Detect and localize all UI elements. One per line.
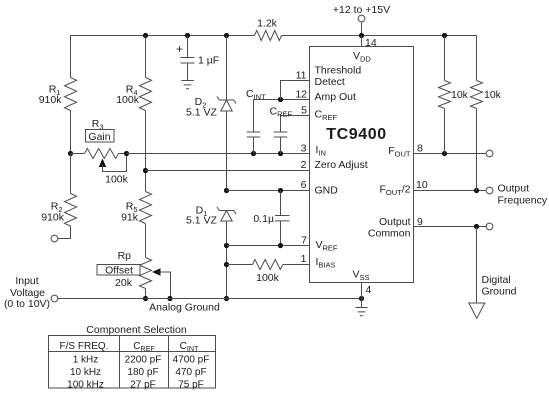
svg-text:10: 10	[416, 179, 428, 191]
svg-text:Common: Common	[368, 228, 411, 240]
op-amp U1 TC9400 box	[310, 47, 414, 283]
wire R2 to terminal	[58, 226, 71, 239]
svg-text:20k: 20k	[115, 277, 133, 289]
resistor 10k #1	[439, 81, 451, 109]
terminal (R2 open circle)	[51, 235, 58, 242]
svg-text:Digital: Digital	[482, 274, 511, 286]
capacitor 1uF	[181, 58, 195, 64]
svg-text:0.1µ: 0.1µ	[253, 213, 274, 225]
node R4/pin2 junction	[143, 168, 148, 173]
wire pin6 GND row	[227, 190, 310, 192]
svg-text:4: 4	[366, 284, 372, 296]
wire pin10 row	[414, 190, 487, 192]
node VSS/analog ground	[359, 296, 364, 301]
terminal input voltage	[51, 295, 58, 302]
svg-text:(0 to 10V): (0 to 10V)	[4, 298, 50, 310]
svg-text:3: 3	[301, 143, 307, 155]
node 10k2/pin10	[474, 188, 479, 193]
svg-text:10k: 10k	[451, 89, 469, 101]
wire rail to R4	[145, 36, 147, 78]
wire Rp wiper to analog ground rail	[159, 272, 171, 299]
R3 wiper arrow	[99, 159, 106, 168]
wire pin11 link	[281, 81, 310, 100]
svg-text:Zero Adjust: Zero Adjust	[315, 159, 368, 171]
wire pin5 row with CREF branch	[281, 116, 310, 133]
wire CINT to pin3 row	[253, 137, 255, 154]
wire pin1 right lead	[283, 264, 310, 266]
node R-column/rail junction	[143, 296, 148, 301]
resistor R2 910k	[65, 194, 77, 227]
wire pin12 row with CINT branch	[254, 100, 310, 133]
svg-text:Output: Output	[379, 216, 411, 228]
resistor 100k (IBIAS)	[253, 260, 283, 270]
wire rail to 10k #1	[444, 36, 446, 81]
wire Rp to analog ground rail	[145, 289, 147, 299]
svg-text:4700 pF: 4700 pF	[173, 354, 210, 365]
wire rail to D2	[226, 36, 228, 101]
svg-text:Output: Output	[498, 183, 530, 195]
svg-text:100k: 100k	[256, 272, 280, 284]
wire 1uF to ground	[187, 63, 189, 81]
node CREF/pin3	[278, 151, 283, 156]
resistor 10k #2	[471, 81, 483, 109]
svg-text:Ground: Ground	[482, 286, 517, 298]
svg-text:1 kHz: 1 kHz	[73, 354, 99, 365]
svg-text:Analog Ground: Analog Ground	[149, 302, 220, 314]
wire pin9 row	[414, 226, 487, 228]
svg-text:Amp Out: Amp Out	[315, 91, 357, 103]
wire pin6 to 0.1uF	[280, 191, 282, 216]
capacitor CREF	[274, 132, 288, 137]
wire 0.1uF to pin7 row	[280, 221, 282, 246]
svg-text:1 µF: 1 µF	[198, 55, 219, 67]
svg-text:6: 6	[301, 179, 307, 191]
ground (below 1uF)	[181, 81, 194, 89]
svg-text:12: 12	[295, 89, 307, 101]
resistor 1.2k	[255, 31, 282, 41]
wire top supply rail right segment	[282, 35, 477, 37]
label box Offset	[97, 265, 140, 276]
wire pin7 VREF row	[227, 245, 310, 247]
Rp wiper arrow	[152, 268, 161, 275]
svg-text:Threshold: Threshold	[315, 65, 362, 77]
resistor R5 91k	[140, 192, 152, 224]
node R1/R3 junction	[68, 151, 73, 156]
node R3 right junction	[124, 151, 129, 156]
svg-text:14: 14	[365, 37, 377, 49]
svg-text:Gain: Gain	[88, 131, 110, 143]
wire pin2 Zero Adjust row	[146, 170, 310, 172]
terminal output frequency	[486, 187, 493, 194]
wire pin1 left lead	[227, 264, 253, 266]
svg-text:+12 to +15V: +12 to +15V	[333, 4, 390, 16]
wire analog ground rail	[58, 298, 362, 300]
svg-text:5.1 VZ: 5.1 VZ	[186, 106, 218, 118]
node D2/pin6	[224, 188, 229, 193]
svg-text:7: 7	[301, 235, 307, 247]
zener diode D2 5.1VZ	[217, 97, 236, 112]
svg-text:1.2k: 1.2k	[257, 18, 278, 30]
node pin9/digital ground	[474, 224, 479, 229]
wire CREF to pin3 row	[280, 137, 282, 154]
svg-text:Detect: Detect	[315, 76, 345, 88]
svg-text:Rp: Rp	[118, 250, 132, 262]
svg-text:5.1 VZ: 5.1 VZ	[186, 214, 218, 226]
wire rail to capacitor 1uF	[187, 36, 189, 58]
label box Gain	[86, 130, 115, 143]
capacitor 0.1uF	[275, 216, 290, 221]
wire top supply rail left segment	[71, 35, 255, 37]
svg-text:F/S FREQ.: F/S FREQ.	[60, 341, 109, 352]
ground (digital, triangle)	[469, 303, 485, 318]
svg-text:Offset: Offset	[105, 265, 133, 277]
wire rail to R1	[70, 36, 72, 78]
capacitor CINT	[247, 132, 261, 137]
supply terminal +12 to +15V	[358, 15, 365, 22]
wire R5 to Rp	[145, 224, 147, 258]
svg-text:2200 pF: 2200 pF	[125, 354, 162, 365]
svg-text:100k: 100k	[116, 94, 140, 106]
svg-text:Frequency: Frequency	[498, 195, 548, 207]
svg-text:TC9400: TC9400	[326, 126, 387, 143]
potentiometer R3 100k	[85, 149, 119, 159]
wire R3 wiper to right terminal	[103, 154, 127, 172]
svg-text:910k: 910k	[39, 94, 63, 106]
wire pin3 net IIN row	[127, 153, 310, 155]
wire D2 to pin6 row	[226, 111, 228, 191]
svg-text:8: 8	[417, 143, 423, 155]
terminal output common	[486, 223, 493, 230]
svg-text:910k: 910k	[41, 212, 65, 224]
svg-text:75 pF: 75 pF	[178, 380, 204, 391]
wire rail corner to 10k #2	[476, 36, 478, 81]
svg-text:2: 2	[301, 159, 307, 171]
svg-text:GND: GND	[315, 185, 339, 197]
svg-text:10k: 10k	[484, 89, 502, 101]
node: rail junction dots	[143, 33, 148, 38]
wire 10k #1 to pin8 row	[444, 109, 446, 154]
wire R3 right lead	[119, 153, 127, 155]
wire pin9 to digital ground	[476, 227, 478, 304]
svg-text:100 kHz: 100 kHz	[67, 380, 104, 391]
node 10k/pin8	[442, 151, 447, 156]
node D1/pin1	[224, 262, 229, 267]
wire 10k #2 to pin10 row (crosses pin8 row)	[476, 109, 478, 191]
svg-text:91k: 91k	[121, 212, 139, 224]
node D1/pin7	[224, 243, 229, 248]
svg-text:180 pF: 180 pF	[127, 367, 158, 378]
node 0.1uF/pin6	[278, 188, 283, 193]
node 0.1uF/pin7	[278, 243, 283, 248]
svg-text:+: +	[176, 42, 183, 56]
wire node to R2	[70, 154, 72, 194]
svg-text:10 kHz: 10 kHz	[70, 367, 101, 378]
svg-text:27 pF: 27 pF	[130, 380, 156, 391]
ground (VSS)	[356, 299, 368, 316]
wire D1 to analog ground rail	[226, 221, 228, 299]
node D-column/analog ground	[224, 296, 229, 301]
node CINT/pin3	[251, 151, 256, 156]
table component selection	[49, 336, 216, 389]
svg-text:1: 1	[301, 253, 307, 265]
svg-text:11: 11	[296, 70, 307, 82]
svg-text:100k: 100k	[105, 174, 129, 186]
wire R4 to R5 (crosses pin3 row)	[145, 111, 147, 192]
resistor R4 100k	[140, 78, 152, 111]
resistor R1 910k	[65, 78, 77, 111]
terminal FOUT	[486, 150, 493, 157]
svg-text:Input: Input	[15, 275, 38, 287]
node wiper/rail junction	[167, 296, 172, 301]
wire pin8 FOUT row	[414, 153, 487, 155]
svg-text:Component Selection: Component Selection	[86, 324, 187, 336]
pin 14 VDD stub	[361, 36, 363, 47]
svg-text:470 pF: 470 pF	[175, 367, 206, 378]
node pin11-pin12 link	[278, 97, 283, 102]
wire R3 left lead	[71, 153, 85, 155]
wire R1 to node pin3 row	[70, 111, 72, 154]
zener diode D1 5.1VZ	[217, 207, 236, 221]
potentiometer Rp 20k	[140, 258, 152, 289]
svg-text:5: 5	[301, 105, 307, 117]
